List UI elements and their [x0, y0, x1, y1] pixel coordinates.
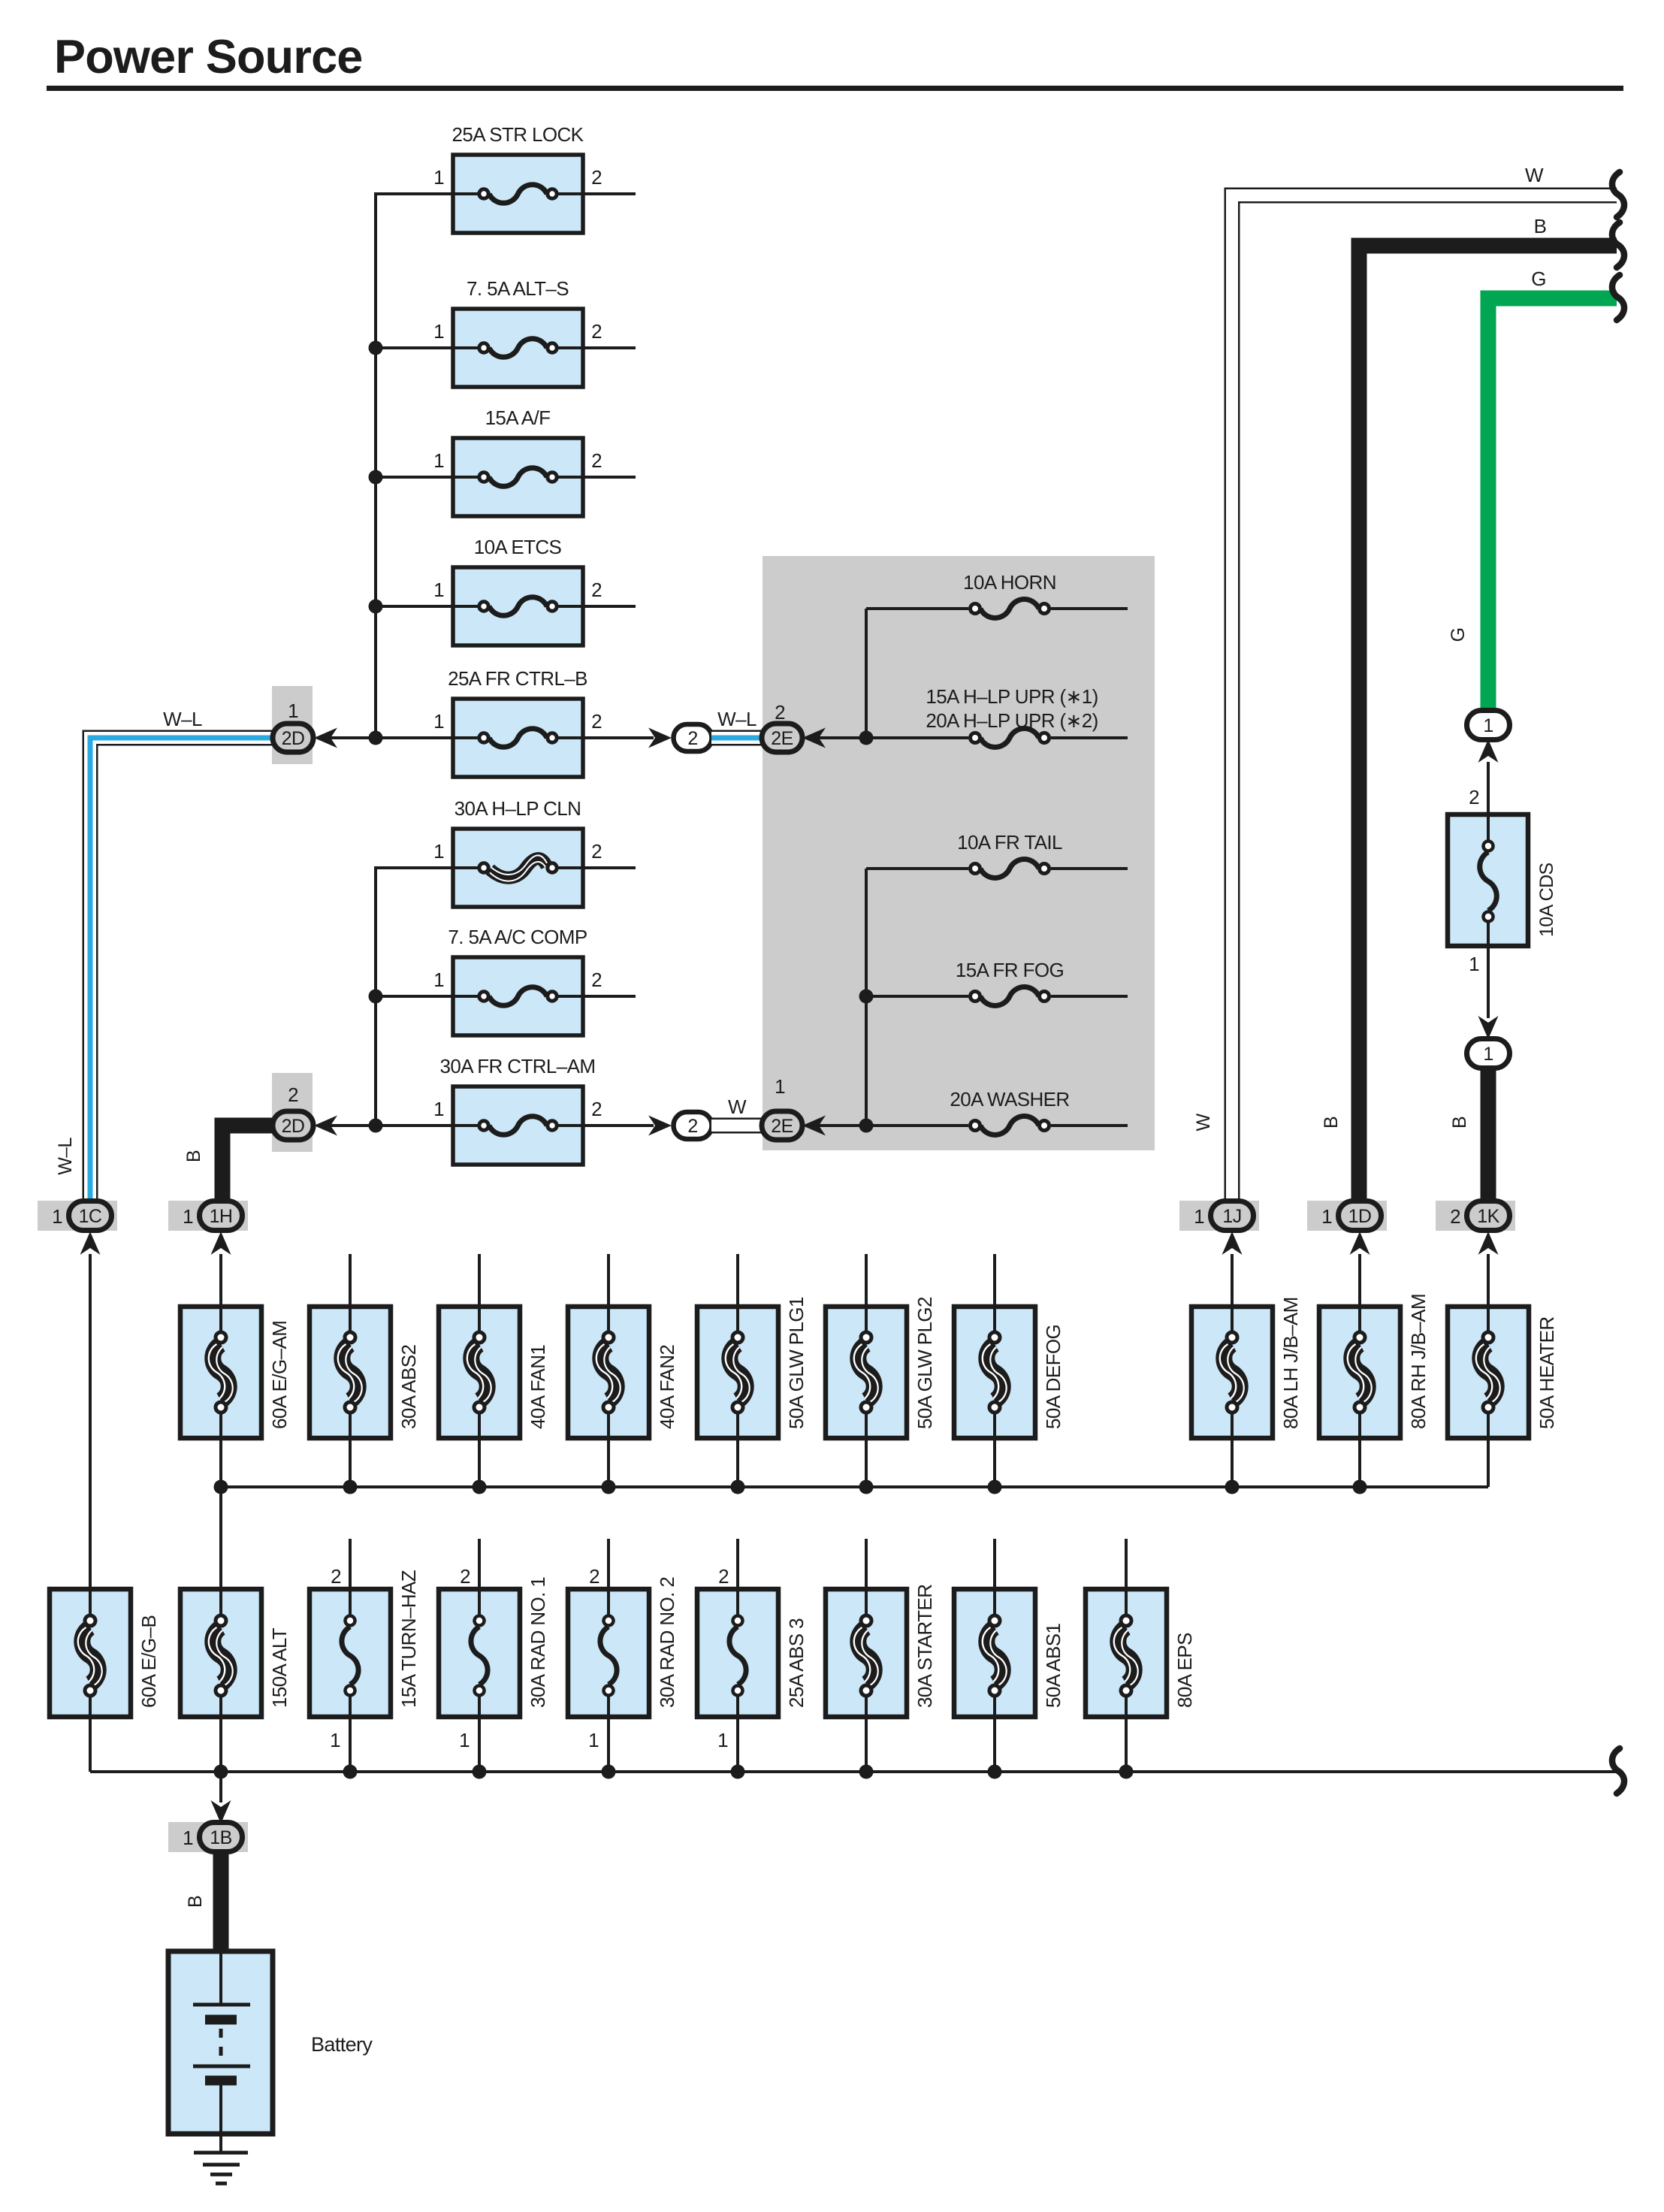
svg-text:15A H–LP UPR (∗1): 15A H–LP UPR (∗1)	[926, 685, 1098, 708]
junction lower bus at A/C COMP	[369, 990, 383, 1004]
svg-text:1: 1	[433, 969, 444, 991]
connector 2E pin 2	[762, 724, 802, 752]
value label 30A RAD NO. 2	[656, 1577, 678, 1708]
junction bus1 x=982	[731, 1480, 745, 1494]
wire bottom bus	[90, 1770, 1617, 1773]
pin 2 label of 15A A/F	[591, 449, 602, 472]
svg-text:B: B	[1534, 215, 1547, 237]
wire label B (battery feed)	[185, 1896, 206, 1908]
wire bus below fusible-link row 1	[221, 1485, 1488, 1488]
value label 60A E/G–B	[137, 1615, 160, 1708]
svg-text:2: 2	[591, 710, 602, 733]
svg-text:1: 1	[52, 1205, 62, 1228]
gray tag behind connector 2D pin 1	[272, 686, 313, 764]
value label 25A FR CTRL–B	[448, 667, 587, 690]
svg-text:1: 1	[1469, 953, 1479, 975]
wire stub above 40A FAN2	[607, 1254, 610, 1307]
svg-text:2: 2	[1469, 786, 1479, 808]
wire bus upper-left vertical	[374, 194, 377, 738]
wire feed to fuse 7.5A ALT-S	[374, 346, 453, 349]
wire 2D pin2 to bus	[331, 1124, 453, 1127]
wire below 30A STARTER to bottom bus	[865, 1717, 868, 1772]
svg-text:1: 1	[433, 579, 444, 601]
connector 1J	[1211, 1201, 1254, 1231]
wire branch up to 10A HORN	[865, 609, 868, 738]
svg-text:2: 2	[687, 728, 697, 749]
wire bus lower-left vertical	[374, 868, 377, 1126]
fusible link 50A GLW PLG2	[826, 1307, 907, 1438]
value label 50A ABS1	[1042, 1624, 1065, 1708]
fuse 10A FR TAIL	[971, 860, 1049, 878]
connector 1B	[200, 1823, 243, 1852]
wire output stub of 25A STR LOCK	[583, 192, 636, 195]
wire label W (top)	[1525, 164, 1544, 186]
junction at H-LP UPR branch	[859, 731, 874, 745]
wire branch up to FR TAIL	[865, 869, 868, 1126]
fuse 15A A/F	[453, 438, 583, 516]
wire feed to fuse 10A ETCS	[374, 605, 453, 608]
svg-text:2: 2	[591, 320, 602, 343]
fuse 25A STR LOCK	[453, 155, 583, 233]
wire B from 2D pin 2 to connector 1H	[222, 1126, 275, 1201]
connector 1K	[1467, 1201, 1510, 1231]
wire below 80A RH J/B–AM to bus	[1358, 1438, 1361, 1487]
svg-text:2: 2	[591, 579, 602, 601]
fuse 7. 5A ALT–S	[453, 309, 583, 387]
wire B from CDS connector to 1K	[1481, 1068, 1496, 1201]
gray tag behind connector 1J	[1179, 1201, 1259, 1231]
junction bottom bus x=1153	[859, 1765, 874, 1779]
arrow out of FR CTRL-AM	[648, 1116, 672, 1136]
svg-text:1J: 1J	[1222, 1206, 1241, 1227]
svg-text:1: 1	[775, 1075, 785, 1098]
wire W between 2 and 2E pin 1	[711, 1118, 765, 1134]
arrow into connector 1 (upper)	[1478, 739, 1499, 763]
svg-text:1K: 1K	[1477, 1206, 1499, 1227]
svg-text:1: 1	[717, 1729, 728, 1751]
gray panel (headlamp/horn fuse block)	[763, 556, 1155, 1150]
wire stub above 40A FAN1	[478, 1254, 481, 1307]
fuse 10A HORN	[971, 600, 1049, 618]
pin 1 label of 1J	[1194, 1205, 1204, 1228]
svg-text:30A STARTER: 30A STARTER	[914, 1585, 936, 1708]
arrow into 2D pin 2	[314, 1116, 337, 1136]
arrow out of 1H	[211, 1231, 231, 1255]
svg-text:30A ABS2: 30A ABS2	[397, 1345, 420, 1429]
svg-text:15A A/F: 15A A/F	[485, 406, 551, 429]
value label 80A RH J/B–AM	[1407, 1294, 1430, 1429]
value label 50A DEFOG	[1042, 1325, 1065, 1429]
wire stub above 50A GLW PLG2	[865, 1254, 868, 1307]
junction bottom bus x=1499	[1119, 1765, 1134, 1779]
wire bus1 down to 150A ALT	[219, 1487, 222, 1589]
pin 2 label of 7. 5A ALT–S	[591, 320, 602, 343]
fusible link 60A E/G–B	[50, 1589, 131, 1717]
wire below 150A ALT to bottom bus	[219, 1717, 222, 1772]
svg-text:20A WASHER: 20A WASHER	[950, 1088, 1069, 1111]
svg-text:1: 1	[433, 1098, 444, 1120]
break symbol W wire	[1612, 172, 1624, 217]
wire B from 1B to battery	[213, 1852, 229, 1954]
wire 1C to 60A E/G-B	[89, 1254, 92, 1589]
wire W-L from 2D pin 1 to connector 1C	[90, 738, 275, 1201]
svg-text:2: 2	[460, 1565, 470, 1588]
fuse 10A CDS	[1448, 814, 1528, 946]
wire output stub of 30A H–LP CLN	[583, 866, 636, 869]
arrow out of 1D	[1350, 1231, 1370, 1255]
svg-text:50A GLW PLG1: 50A GLW PLG1	[785, 1297, 808, 1429]
svg-text:80A RH J/B–AM: 80A RH J/B–AM	[1407, 1294, 1430, 1429]
svg-text:80A LH J/B–AM: 80A LH J/B–AM	[1279, 1297, 1302, 1429]
svg-text:1: 1	[1483, 1044, 1493, 1065]
svg-text:1D: 1D	[1348, 1206, 1372, 1227]
wire CDS pin 1 down	[1487, 946, 1490, 1018]
fusible link 50A HEATER	[1448, 1307, 1529, 1438]
junction lower bus at FR CTRL-AM	[369, 1119, 383, 1133]
wire below 50A GLW PLG2 to bus	[865, 1438, 868, 1487]
value label 80A EPS	[1173, 1633, 1196, 1708]
wire stub above 30A ABS2	[349, 1254, 352, 1307]
wire stub above 50A DEFOG	[993, 1254, 996, 1307]
wire label B (top)	[1534, 215, 1547, 237]
svg-text:2: 2	[591, 449, 602, 472]
fuse 25A FR CTRL–B	[453, 699, 583, 777]
fuse 30A RAD NO. 1	[439, 1589, 520, 1717]
wire output of 10A HORN	[1051, 607, 1128, 610]
svg-text:1: 1	[1194, 1205, 1204, 1228]
wire output stub of 15A A/F	[583, 476, 636, 479]
wire below 15A TURN–HAZ to bottom bus	[349, 1717, 352, 1772]
svg-text:2: 2	[591, 1098, 602, 1120]
arrow out of 1C	[80, 1231, 101, 1255]
pin 1 label of 1D	[1321, 1205, 1332, 1228]
svg-text:50A DEFOG: 50A DEFOG	[1042, 1325, 1065, 1429]
svg-text:30A RAD NO. 1: 30A RAD NO. 1	[527, 1577, 549, 1708]
svg-text:1: 1	[433, 449, 444, 472]
svg-text:2: 2	[591, 166, 602, 189]
value label 30A ABS2	[397, 1345, 420, 1429]
value label 25A ABS 3	[785, 1618, 808, 1708]
wire 2D pin1 to bus	[331, 736, 453, 739]
value label H-LP UPR line1	[926, 685, 1098, 708]
connector 1H	[200, 1201, 243, 1231]
junction bus1 x=810	[602, 1480, 616, 1494]
wire feed to fuse 30A H-LP CLN	[374, 866, 453, 869]
wire 1H to 60A E/G-AM	[219, 1254, 222, 1307]
value label 7. 5A ALT–S	[467, 277, 569, 300]
wire feed to fuse 15A A/F	[374, 476, 453, 479]
junction upper bus at 463	[369, 341, 383, 355]
gray tag behind connector 1C	[38, 1201, 117, 1231]
wire feed to fuse 7.5A A/C COMP	[374, 995, 453, 998]
wire below 40A FAN2 to bus	[607, 1438, 610, 1487]
svg-text:1H: 1H	[210, 1206, 233, 1227]
svg-text:W: W	[728, 1095, 747, 1118]
wire label B (vertical run to 1K)	[1449, 1117, 1470, 1129]
wire W feed (to 1J)	[1232, 195, 1617, 1201]
value label 40A FAN2	[656, 1345, 678, 1429]
svg-text:B: B	[183, 1150, 204, 1162]
value label 25A STR LOCK	[452, 123, 584, 146]
svg-text:60A E/G–AM: 60A E/G–AM	[268, 1321, 291, 1429]
svg-text:25A ABS 3: 25A ABS 3	[785, 1618, 808, 1708]
wire 1J to 80A LH J/B-AM	[1231, 1254, 1234, 1307]
wire stub above 25A ABS 3	[736, 1539, 739, 1589]
junction bottom bus x=810	[602, 1765, 616, 1779]
wire stub above 30A RAD NO. 1	[478, 1539, 481, 1589]
in-line connector 1 (above CDS)	[1467, 711, 1510, 740]
arrow out of FR CTRL-B	[648, 728, 672, 748]
svg-text:15A TURN–HAZ: 15A TURN–HAZ	[397, 1570, 420, 1708]
connector 2D pin 1	[273, 724, 313, 752]
wire stub above 50A ABS1	[993, 1539, 996, 1589]
svg-text:30A FR CTRL–AM: 30A FR CTRL–AM	[440, 1055, 596, 1077]
pin 1 label of 1C	[52, 1205, 62, 1228]
value label 150A ALT	[268, 1627, 291, 1708]
break symbol bottom bus	[1612, 1748, 1624, 1793]
wire stub above 15A TURN-HAZ	[349, 1539, 352, 1589]
gray tag behind connector 2D pin 2	[272, 1073, 313, 1152]
pin 2 label of 25A STR LOCK	[591, 166, 602, 189]
wire feed 10A FR TAIL	[866, 867, 968, 870]
gray tag behind connector 1H	[168, 1201, 248, 1231]
wire below 30A RAD NO. 2 to bottom bus	[607, 1717, 610, 1772]
pin 1 label of 1B	[183, 1827, 193, 1849]
svg-text:1: 1	[288, 700, 298, 722]
fuse 30A FR CTRL–AM	[453, 1086, 583, 1165]
junction upper bus at 982	[369, 731, 383, 745]
svg-text:2D: 2D	[282, 728, 305, 749]
svg-text:1: 1	[1483, 715, 1493, 736]
wire 2E pin1 to 20A WASHER fuse	[819, 1124, 968, 1127]
fusible link 40A FAN2	[568, 1307, 649, 1438]
wire below 80A LH J/B–AM to bus	[1231, 1438, 1234, 1487]
junction bus1 x=466	[343, 1480, 358, 1494]
value label 7. 5A A/C COMP	[448, 926, 587, 948]
fuse 10A ETCS	[453, 567, 583, 645]
wire feed 15A FR FOG	[866, 995, 968, 998]
value label H-LP UPR line2	[926, 709, 1098, 732]
connector 2D pin 2	[273, 1111, 313, 1140]
svg-text:50A ABS1: 50A ABS1	[1042, 1624, 1065, 1708]
wire below 80A EPS to bottom bus	[1125, 1717, 1128, 1772]
arrow into 2E pin 1	[802, 1116, 826, 1136]
gray tag behind connector 1D	[1307, 1201, 1387, 1231]
fuse 15A FR FOG	[971, 987, 1049, 1006]
wire output of H-LP UPR	[1051, 736, 1128, 739]
wire feed 10A HORN	[866, 607, 968, 610]
pin 1 label of 30A H–LP CLN	[433, 840, 444, 863]
pin 1 label of 10A ETCS	[433, 579, 444, 601]
fusible link 80A RH J/B–AM	[1319, 1307, 1400, 1438]
wire 2E pin2 to H-LP UPR fuse	[819, 736, 968, 739]
junction bottom bus x=982	[731, 1765, 745, 1779]
wire label W-L (horizontal run)	[163, 708, 202, 730]
svg-text:W–L: W–L	[163, 708, 202, 730]
svg-text:30A RAD NO. 2: 30A RAD NO. 2	[656, 1577, 678, 1708]
pin 1 label of 2D	[288, 700, 298, 722]
svg-text:1C: 1C	[79, 1206, 102, 1227]
break symbol G wire	[1612, 275, 1624, 320]
wire label W-L (between connectors)	[717, 708, 757, 730]
pin 1 label of 10A CDS	[1469, 953, 1479, 975]
value label 40A FAN1	[527, 1345, 549, 1429]
wire below 60A E/G–B to bottom bus	[89, 1717, 92, 1772]
value label 60A E/G–AM	[268, 1321, 291, 1429]
svg-text:2: 2	[687, 1116, 697, 1137]
gray tag behind connector 1B	[168, 1822, 248, 1852]
wire below 25A ABS 3 to bottom bus	[736, 1717, 739, 1772]
svg-text:1: 1	[588, 1729, 599, 1751]
svg-text:10A CDS: 10A CDS	[1536, 863, 1557, 937]
svg-text:W–L: W–L	[717, 708, 757, 730]
value label 30A FR CTRL–AM	[440, 1055, 596, 1077]
gray tag behind connector 1K	[1436, 1201, 1515, 1231]
wire W-L between 2 and 2E pin 2	[711, 730, 765, 746]
fusible link 30A STARTER	[826, 1589, 907, 1717]
title underline	[47, 86, 1623, 91]
svg-text:1: 1	[433, 166, 444, 189]
wire output of WASHER	[1051, 1124, 1128, 1127]
value label 50A GLW PLG2	[914, 1297, 936, 1429]
junction bottom bus x=1324	[988, 1765, 1002, 1779]
pin 2 label of 25A FR CTRL–B	[591, 710, 602, 733]
svg-text:G: G	[1531, 267, 1546, 290]
fuse 15A/20A H-LP UPR	[971, 729, 1049, 748]
wire G feed (to 10A CDS)	[1488, 298, 1617, 712]
svg-text:1: 1	[433, 320, 444, 343]
wire feed to fuse 30A FR CTRL-AM	[374, 1124, 453, 1127]
fusible link 80A LH J/B–AM	[1191, 1307, 1273, 1438]
svg-text:7. 5A ALT–S: 7. 5A ALT–S	[467, 277, 569, 300]
svg-text:50A HEATER: 50A HEATER	[1536, 1316, 1558, 1429]
wire bus down to 1B	[219, 1772, 222, 1803]
svg-text:B: B	[1449, 1117, 1470, 1129]
svg-text:2: 2	[331, 1565, 341, 1588]
in-line connector 2 (lower)	[674, 1112, 712, 1139]
svg-text:2D: 2D	[282, 1116, 305, 1137]
junction upper bus at 807	[369, 600, 383, 614]
wire output of FR FOG	[1051, 995, 1128, 998]
wire label W (between connectors)	[728, 1095, 747, 1118]
pin 2 label of 10A ETCS	[591, 579, 602, 601]
fuse 20A WASHER	[971, 1117, 1049, 1135]
svg-text:2E: 2E	[771, 1116, 793, 1137]
svg-text:10A FR TAIL: 10A FR TAIL	[957, 831, 1062, 854]
junction bus1 x=294	[214, 1480, 228, 1494]
svg-text:15A FR FOG: 15A FR FOG	[956, 959, 1064, 981]
junction bus1 x=1640	[1225, 1480, 1240, 1494]
fuse 30A H–LP CLN	[453, 829, 583, 907]
wire below 30A ABS2 to bus	[349, 1438, 352, 1487]
value label 15A FR FOG	[956, 959, 1064, 981]
wire label W-L (vertical run)	[55, 1138, 76, 1175]
wire label W (vertical run)	[1193, 1114, 1214, 1132]
svg-text:20A H–LP UPR (∗2): 20A H–LP UPR (∗2)	[926, 709, 1098, 732]
wire stub above 80A EPS	[1125, 1539, 1128, 1589]
fuse 15A TURN–HAZ	[310, 1589, 391, 1717]
svg-text:30A H–LP CLN: 30A H–LP CLN	[455, 797, 581, 820]
junction bottom bus x=294	[214, 1765, 228, 1779]
wire stub above 30A RAD NO. 2	[607, 1539, 610, 1589]
svg-text:B: B	[1321, 1117, 1342, 1129]
wire label G (top)	[1531, 267, 1546, 290]
arrow into connector 1 (lower)	[1478, 1016, 1499, 1039]
value label 10A FR TAIL	[957, 831, 1062, 854]
pin 1 label of 30A RAD NO. 2	[588, 1729, 599, 1751]
arrow into 2E pin 2	[802, 728, 826, 748]
pin 2 label of 1K	[1450, 1205, 1460, 1228]
pin 2 label of 30A FR CTRL–AM	[591, 1098, 602, 1120]
wire output stub of 7. 5A A/C COMP	[583, 995, 636, 998]
arrow out of 1J	[1222, 1231, 1243, 1255]
fuse 25A ABS 3	[697, 1589, 778, 1717]
svg-text:2: 2	[591, 840, 602, 863]
wire battery to ground	[219, 2134, 222, 2153]
fuse 7. 5A A/C COMP	[453, 957, 583, 1035]
pin 2 label of 7. 5A A/C COMP	[591, 969, 602, 991]
pin 1 label of 15A A/F	[433, 449, 444, 472]
value label 30A RAD NO. 1	[527, 1577, 549, 1708]
connector 1D	[1339, 1201, 1382, 1231]
svg-text:1: 1	[330, 1729, 340, 1751]
junction bus1 x=1810	[1353, 1480, 1367, 1494]
wire connector to CDS pin 2	[1487, 762, 1490, 814]
svg-text:60A E/G–B: 60A E/G–B	[137, 1615, 160, 1708]
wire fuse FR CTRL-AM to oval 2	[583, 1124, 654, 1127]
pin 1 label of 7. 5A A/C COMP	[433, 969, 444, 991]
wire below 50A ABS1 to bottom bus	[993, 1717, 996, 1772]
arrow out of 1K	[1478, 1231, 1499, 1255]
value label 30A STARTER	[914, 1585, 936, 1708]
value label 15A A/F	[485, 406, 551, 429]
junction upper bus at 635	[369, 470, 383, 485]
svg-text:1B: 1B	[210, 1827, 231, 1848]
wire below 30A RAD NO. 1 to bottom bus	[478, 1717, 481, 1772]
svg-text:2: 2	[589, 1565, 599, 1588]
wire 1K to 50A HEATER	[1487, 1254, 1490, 1307]
svg-text:150A ALT: 150A ALT	[268, 1627, 291, 1708]
junction at WASHER branch	[859, 1119, 874, 1133]
pin 1 label of 7. 5A ALT–S	[433, 320, 444, 343]
wire label B (vertical run to 1H)	[183, 1150, 204, 1162]
in-line connector 1 (below CDS)	[1467, 1039, 1510, 1068]
wire below 50A HEATER to bus	[1487, 1438, 1490, 1487]
fusible link 60A E/G–AM	[180, 1307, 261, 1438]
svg-text:7. 5A A/C COMP: 7. 5A A/C COMP	[448, 926, 587, 948]
svg-text:2: 2	[775, 701, 785, 724]
pin 1 label of 30A FR CTRL–AM	[433, 1098, 444, 1120]
fusible link 40A FAN1	[439, 1307, 520, 1438]
battery	[168, 1951, 273, 2134]
value label 50A HEATER	[1536, 1316, 1558, 1429]
wire feed to fuse 25A STR LOCK	[374, 192, 453, 195]
svg-text:Battery: Battery	[311, 2033, 373, 2056]
pin 2 label of 10A CDS	[1469, 786, 1479, 808]
value label 10A CDS	[1536, 863, 1557, 937]
fusible link 50A ABS1	[954, 1589, 1035, 1717]
svg-text:2E: 2E	[771, 728, 793, 749]
fusible link 50A GLW PLG1	[697, 1307, 778, 1438]
pin 2 label of 30A H–LP CLN	[591, 840, 602, 863]
svg-text:2: 2	[288, 1083, 298, 1106]
svg-text:1: 1	[183, 1827, 193, 1849]
connector 2E pin 1	[762, 1111, 802, 1140]
wire B feed (to 1D)	[1359, 246, 1617, 1201]
svg-text:G: G	[1448, 628, 1469, 642]
value label 10A ETCS	[474, 536, 562, 558]
pin 2 label of 15A TURN-HAZ	[331, 1565, 341, 1588]
